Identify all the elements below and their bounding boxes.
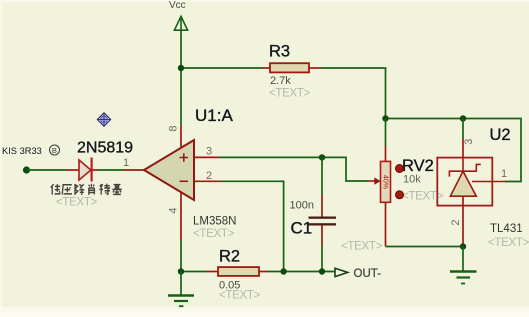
svg-text:1: 1 <box>501 168 507 180</box>
降 <box>75 184 84 195</box>
node junction pin3 / C1 <box>319 154 325 160</box>
terminal OUT- <box>335 268 381 280</box>
node: left input terminal <box>23 166 30 173</box>
pin 4 stub <box>180 192 182 240</box>
label: KIS 3R33 with circled B <box>2 145 60 156</box>
label: diode TEXT placeholder <box>56 197 98 209</box>
node junction pin2 / bottom rail <box>280 268 286 274</box>
svg-text:2.7k: 2.7k <box>270 75 291 87</box>
node junction rail / U2 pin 3 <box>460 115 466 121</box>
svg-text:<TEXT>: <TEXT> <box>488 237 529 249</box>
wire: U2 pin 3 drop <box>462 119 464 140</box>
ground (U2) <box>450 272 477 284</box>
svg-text:OUT-: OUT- <box>354 268 382 280</box>
svg-text:4: 4 <box>168 208 180 214</box>
wire: Vcc vertical down to junction and on to op-amp pin 8 <box>180 32 182 127</box>
resistor R3 <box>262 63 321 72</box>
svg-text:2: 2 <box>450 219 462 225</box>
svg-text:KIS 3R33: KIS 3R33 <box>2 146 42 156</box>
svg-text:<TEXT>: <TEXT> <box>193 228 235 240</box>
pin 2 stub <box>194 180 221 182</box>
pin 3 stub <box>194 156 219 158</box>
shunt regulator U2 TL431 <box>437 139 505 247</box>
svg-text:C1: C1 <box>291 219 313 238</box>
wire: horizontal rail to right edge, down, and back to U2 pin 1 <box>386 119 522 182</box>
wire: pin 3 to C1 node and on to RV2 wiper <box>219 157 368 181</box>
RV2 drag handle dot bottom <box>396 191 404 199</box>
wire: pin 2 down to R2 rail <box>221 181 284 271</box>
svg-text:<TEXT>: <TEXT> <box>219 290 261 302</box>
resistor R2 <box>207 267 268 276</box>
diode D1 2N5819 <box>66 158 98 182</box>
svg-text:Vcc: Vcc <box>169 0 186 11</box>
marker: blue origin crosshair <box>97 113 110 126</box>
svg-text:3: 3 <box>463 139 475 145</box>
肖 <box>89 184 95 195</box>
svg-text:3: 3 <box>206 146 212 158</box>
wire: terminal to diode anode <box>27 169 67 171</box>
特 <box>99 184 110 195</box>
wire: R2 to OUT- terminal <box>268 271 335 273</box>
svg-text:2: 2 <box>206 170 212 182</box>
potentiometer RV2 <box>368 119 391 247</box>
node junction RV2 rail / U2 pin 2 <box>460 243 466 249</box>
node junction at Vcc line / R3 wire <box>178 65 184 71</box>
node junction C1 / bottom rail <box>319 268 325 274</box>
svg-text:<TEXT>: <TEXT> <box>56 197 98 209</box>
svg-text:RV2: RV2 <box>402 157 434 175</box>
ground (op-amp pin 4) <box>168 272 194 307</box>
svg-text:R2: R2 <box>219 248 240 266</box>
label: Chinese annotation (low-dropout Schottky) <box>51 184 122 195</box>
svg-text:<TEXT>: <TEXT> <box>269 88 311 100</box>
svg-text:LM358N: LM358N <box>193 216 236 228</box>
svg-text:2N5819: 2N5819 <box>77 140 133 157</box>
基 <box>112 185 121 195</box>
node junction rail / RV2 top <box>382 115 388 121</box>
svg-text:U2: U2 <box>490 126 511 144</box>
wire: pin stub into op-amp output <box>124 169 145 171</box>
svg-text:U1:A: U1:A <box>195 106 233 125</box>
svg-text:B: B <box>52 146 57 155</box>
svg-text:1: 1 <box>123 157 129 169</box>
wire: bottom rail from pin4 junction to R2 <box>181 271 207 273</box>
wire: junction down to ground <box>462 247 464 272</box>
pin 8 stub <box>180 126 182 149</box>
svg-text:<TEXT>: <TEXT> <box>341 241 383 253</box>
wire: diode cathode to op-amp output <box>98 169 124 171</box>
Vcc power symbol <box>169 0 188 32</box>
svg-text:10k: 10k <box>403 174 421 186</box>
低 <box>51 184 61 194</box>
node junction pin4 / bottom rail <box>178 268 184 274</box>
svg-text:40%: 40% <box>382 175 389 189</box>
capacitor C1 <box>309 157 337 271</box>
RV2 drag handle dot top <box>396 165 404 173</box>
svg-text:R3: R3 <box>269 43 290 61</box>
op-amp U1:A <box>144 140 194 200</box>
wire: top horizontal from Vcc junction to R3 <box>181 67 262 69</box>
svg-text:100n: 100n <box>290 200 314 212</box>
svg-text:8: 8 <box>168 125 180 131</box>
wire: pin 4 to ground junction <box>180 240 182 272</box>
wire: R3 right going down to feedback rail <box>321 68 386 119</box>
wire: RV2 bottom to ground rail <box>386 246 464 248</box>
svg-text:TL431: TL431 <box>490 223 523 235</box>
压 <box>62 185 72 195</box>
